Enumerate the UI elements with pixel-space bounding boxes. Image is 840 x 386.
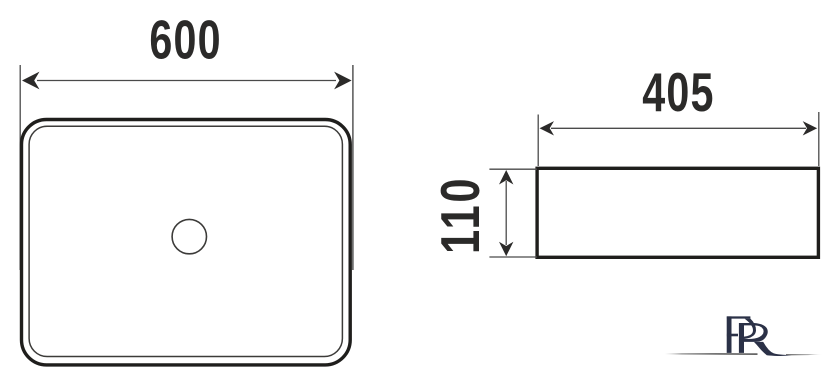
svg-text:405: 405 <box>642 63 714 124</box>
side view rectangle <box>537 168 818 257</box>
arrowhead left of 405 dimension <box>540 121 555 135</box>
extension line top of 110 dimension <box>489 168 537 170</box>
logo letter P <box>727 316 756 353</box>
extension line bottom of 110 dimension <box>489 256 537 258</box>
extension line right of 600 dimension <box>352 65 354 270</box>
logo swoosh underline right segment <box>786 354 823 355</box>
arrowhead bottom of 110 dimension <box>499 242 513 257</box>
basin inner outline (top view) <box>29 126 342 356</box>
arrowhead right of 405 dimension <box>803 121 818 135</box>
logo swoosh underline left segment <box>665 353 758 355</box>
arrowhead top of 110 dimension <box>499 170 513 185</box>
arrowhead right of 600 dimension <box>334 72 352 90</box>
arrowhead left of 600 dimension <box>22 72 40 90</box>
extension line right of 405 dimension <box>818 112 820 166</box>
dimension line 600 <box>37 80 336 82</box>
svg-text:600: 600 <box>149 10 221 71</box>
extension line left of 405 dimension <box>537 115 539 167</box>
basin outer outline (top view) <box>22 120 351 365</box>
drain hole circle <box>172 219 206 253</box>
svg-text:110: 110 <box>429 176 491 254</box>
dimension line 405 <box>551 127 806 129</box>
logo letter R <box>739 323 792 356</box>
dimension line 110 (vertical) <box>505 181 507 245</box>
extension line left of 600 dimension <box>19 65 21 270</box>
